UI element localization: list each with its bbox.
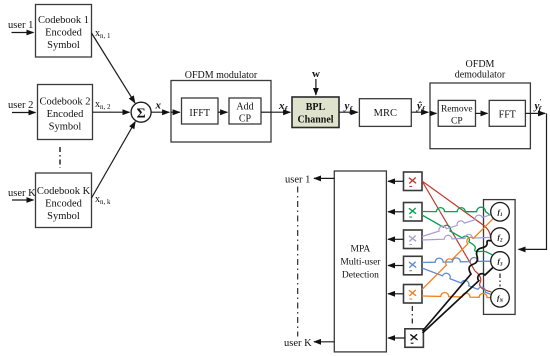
function node f1 xyxy=(491,203,510,222)
wire codebookK to summer xyxy=(92,122,136,198)
svg-text:user 2: user 2 xyxy=(8,100,33,111)
BPL Channel box xyxy=(292,97,339,128)
wire into IFFT xyxy=(171,111,180,113)
variable node x5 box xyxy=(404,285,423,304)
svg-text:Codebook 1: Codebook 1 xyxy=(38,15,89,26)
MPA box xyxy=(334,171,386,352)
edge x3-f1 purple xyxy=(422,215,491,237)
OFDM modulator box xyxy=(171,81,271,143)
svg-text:Symbol: Symbol xyxy=(49,122,82,133)
edge x1-f2 red xyxy=(422,181,491,237)
svg-text:user K: user K xyxy=(8,188,36,199)
variable node x1 box xyxy=(404,172,423,191)
dashdot f3 to fN xyxy=(499,274,501,287)
svg-text:Codebook K: Codebook K xyxy=(37,186,91,197)
svg-text:CP: CP xyxy=(451,117,463,127)
wire Add CP out xyxy=(261,111,271,113)
svg-text:BPL: BPL xyxy=(306,102,326,113)
svg-text:w: w xyxy=(312,68,320,80)
user K arrow xyxy=(12,199,34,201)
noise arrow w xyxy=(315,79,317,95)
svg-text:Channel: Channel xyxy=(297,115,333,126)
variable node x2 box xyxy=(404,203,423,222)
svg-text:demodulator: demodulator xyxy=(455,70,506,81)
edge x5-f4 orange xyxy=(422,293,491,298)
edge xK-f2 black xyxy=(423,241,492,332)
svg-text:Encoded: Encoded xyxy=(47,109,84,120)
function node f2 xyxy=(491,228,510,247)
svg-text:MPA: MPA xyxy=(351,245,371,255)
svg-text:Σ: Σ xyxy=(137,106,146,121)
svg-text:Codebook 2: Codebook 2 xyxy=(39,97,90,108)
svg-text:Add: Add xyxy=(236,102,253,113)
svg-text:IFFT: IFFT xyxy=(189,108,210,119)
codebook 1 box xyxy=(36,5,92,58)
edge x3-f2 purple xyxy=(422,234,491,240)
dashdot x5 to xK xyxy=(411,306,413,326)
svg-text:FFT: FFT xyxy=(499,110,516,121)
FFT box xyxy=(489,100,525,126)
edge x2-f3 green xyxy=(422,215,492,255)
svg-text:Symbol: Symbol xyxy=(47,40,80,51)
wire FFT out xyxy=(525,112,530,114)
svg-text:user 1: user 1 xyxy=(285,175,310,186)
edge x5-f1 orange xyxy=(422,218,493,289)
edge x4-f4 blue xyxy=(422,268,491,295)
svg-text:y′f: y′f xyxy=(533,98,543,114)
svg-text:OFDM modulator: OFDM modulator xyxy=(185,70,258,81)
wire codebook2 to summer xyxy=(93,111,130,113)
wire Remove CP to FFT xyxy=(476,112,488,114)
arrow x4 to MPA xyxy=(388,265,404,267)
wire down right side xyxy=(519,113,547,249)
function node group box xyxy=(484,200,516,315)
svg-text:Multi-user: Multi-user xyxy=(340,258,381,268)
OFDM demodulator box xyxy=(430,83,530,149)
wire BPL to MRC xyxy=(339,111,358,113)
wire MRC to demodulator xyxy=(411,111,428,113)
arrow MPA to user 1 xyxy=(314,177,334,179)
edge x1-f4 red xyxy=(422,181,492,292)
wire summer to OFDM modulator xyxy=(151,111,169,113)
svg-text:OFDM: OFDM xyxy=(466,59,495,70)
variable node x4 box xyxy=(404,256,423,275)
svg-text:Encoded: Encoded xyxy=(45,199,82,210)
wire demodulator out with arrowhead xyxy=(530,112,545,114)
svg-text:Symbol: Symbol xyxy=(47,211,80,222)
svg-text:Encoded: Encoded xyxy=(45,28,82,39)
edge x4-f3 blue xyxy=(422,258,491,263)
codebook 2 box xyxy=(38,85,93,140)
Remove CP box xyxy=(438,100,475,126)
dashdot user1 to userK xyxy=(297,187,299,337)
arrow x1 to MPA xyxy=(388,180,404,182)
arrow x2 to MPA xyxy=(388,211,404,213)
function node f3 xyxy=(491,252,510,271)
dots between codebook 2 and K xyxy=(59,147,61,168)
Add CP box xyxy=(229,98,261,124)
wire IFFT to Add CP xyxy=(218,111,227,113)
user 2 arrow xyxy=(12,112,36,114)
wire modulator to BPL xyxy=(271,111,290,113)
svg-text:Detection: Detection xyxy=(342,271,379,281)
arrow MPA to user K xyxy=(314,341,334,343)
svg-text:Remove: Remove xyxy=(441,105,473,115)
function node fN xyxy=(491,289,510,308)
edge xK-f3 black xyxy=(423,267,494,333)
codebook K box xyxy=(36,173,92,228)
svg-text:user 1: user 1 xyxy=(8,20,33,31)
svg-text:CP: CP xyxy=(239,114,252,125)
variable node xK box xyxy=(405,329,424,348)
user 1 arrow xyxy=(12,32,34,34)
arrow x5 to MPA xyxy=(388,293,404,295)
wire codebook1 to summer xyxy=(92,33,136,103)
MRC box xyxy=(359,99,411,127)
wire into Remove CP xyxy=(430,112,437,114)
edge x2-f1 green xyxy=(422,207,490,215)
svg-text:x: x xyxy=(155,100,162,112)
arrow x3 to MPA xyxy=(388,238,404,240)
summer node xyxy=(131,102,151,122)
svg-text:MRC: MRC xyxy=(374,108,397,119)
IFFT box xyxy=(182,98,219,124)
arrow xK to MPA xyxy=(388,337,405,339)
variable node x3 box xyxy=(404,230,423,249)
svg-text:user K: user K xyxy=(284,338,312,349)
